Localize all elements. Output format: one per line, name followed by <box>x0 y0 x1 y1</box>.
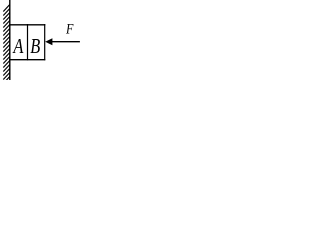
svg-text:A: A <box>12 35 24 58</box>
force arrow shaft <box>52 41 80 43</box>
svg-text:B: B <box>30 35 40 58</box>
physics diagram: blocks A and B pushed against a wall by force F <box>0 0 81 80</box>
wall hatching <box>3 5 10 84</box>
svg-text:F: F <box>65 20 74 36</box>
block box bottom edge <box>9 59 45 61</box>
force arrow head <box>45 38 52 45</box>
divider between A and B <box>27 24 29 60</box>
wall vertical line <box>9 0 11 80</box>
block B right edge <box>44 24 46 60</box>
block box top edge <box>9 24 45 26</box>
